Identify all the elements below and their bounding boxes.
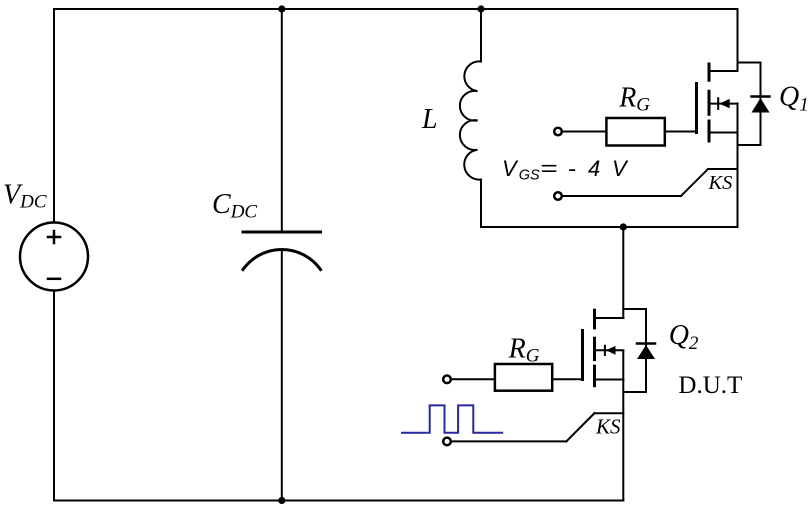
svg-text:=: = <box>540 156 558 181</box>
wire Q1 diode branch <box>760 63 762 146</box>
wire Q1 kelvin source diagonal <box>681 169 708 196</box>
wire Q2 kelvin source to rail <box>594 412 623 414</box>
wire Q1 gate input lead <box>562 131 606 133</box>
label VGS = -4V <box>502 156 629 184</box>
wire Q2 gate lead <box>552 378 582 380</box>
transistor Q1 channel bottom segment <box>708 121 711 141</box>
wire Q1 body-source tie <box>737 104 739 133</box>
inductor L coil <box>460 61 481 179</box>
wire Q1 gate lead <box>665 131 697 133</box>
wire Q2 kelvin source horizontal <box>451 440 567 442</box>
resistor RG2 body <box>495 364 552 391</box>
transistor Q1 channel middle segment <box>708 91 711 114</box>
svg-text:L: L <box>421 104 438 135</box>
wire Q2 diode top tap <box>623 308 646 310</box>
svg-text:CDC: CDC <box>212 189 257 222</box>
svg-text:4: 4 <box>588 156 600 181</box>
VDC minus sign <box>48 278 60 281</box>
svg-text:RG: RG <box>508 334 540 367</box>
wire bottom rail <box>54 500 623 502</box>
transistor Q2 channel middle segment <box>593 338 596 359</box>
transistor Q2 body diode arrow <box>595 346 624 355</box>
diode D1 cathode bar <box>752 95 770 98</box>
wire upper loop bottom <box>481 226 738 228</box>
wire Q2 kelvin source diagonal <box>566 413 594 441</box>
svg-text:KS: KS <box>708 172 733 194</box>
transistor Q1 gate bar <box>695 84 698 133</box>
transistor Q2 channel top segment <box>593 310 596 328</box>
node junction mid bottom (to Q2 drain) <box>620 223 627 230</box>
terminal Q2 gate input <box>443 376 451 384</box>
transistor Q2 channel bottom segment <box>593 366 596 386</box>
transistor Q2 source lead <box>595 379 623 381</box>
wire inductor top lead <box>480 9 482 62</box>
diode D1 triangle <box>752 98 770 113</box>
svg-text:GS: GS <box>519 168 540 184</box>
svg-text:V: V <box>612 156 629 181</box>
voltage source VDC circle <box>20 223 88 291</box>
diode D2 triangle <box>637 345 655 359</box>
wire Q1 source rail down <box>737 133 739 228</box>
svg-text:-: - <box>568 156 576 181</box>
terminal Q1 kelvin source <box>554 192 562 200</box>
wire Q2 source rail down <box>622 380 624 501</box>
transistor Q2 drain lead <box>595 317 623 319</box>
node junction top of capacitor <box>278 5 285 12</box>
node junction bottom of capacitor <box>278 497 285 504</box>
svg-text:D.U.T: D.U.T <box>678 372 742 399</box>
svg-text:Q1: Q1 <box>779 82 809 116</box>
wire capacitor top lead <box>281 9 283 232</box>
capacitor CDC curved bottom plate <box>243 250 321 270</box>
wire capacitor bottom lead <box>281 249 283 500</box>
transistor Q1 source lead <box>709 132 738 134</box>
svg-text:VDC: VDC <box>3 180 47 213</box>
resistor RG1 body <box>606 118 664 146</box>
terminal Q1 gate input <box>554 128 562 136</box>
diode D2 cathode bar <box>637 342 655 345</box>
VDC plus sign <box>48 231 60 243</box>
wire Q2 diode bottom tap <box>623 391 646 393</box>
svg-text:RG: RG <box>618 83 650 116</box>
wire Q2 gate input lead <box>451 378 495 380</box>
wire Q2 diode branch <box>645 309 647 392</box>
svg-text:Q2: Q2 <box>669 320 699 354</box>
wire Q1 diode bottom tap <box>738 144 761 146</box>
capacitor CDC top plate <box>243 231 321 234</box>
wire inductor bottom lead <box>480 180 482 228</box>
wire left rail lower <box>53 291 55 501</box>
wire top rail <box>54 8 738 10</box>
transistor Q2 gate bar <box>581 331 584 380</box>
wire Q1 kelvin source horizontal <box>562 195 681 197</box>
svg-text:V: V <box>502 156 519 181</box>
transistor Q1 body diode arrow <box>709 98 738 109</box>
transistor Q1 drain lead <box>709 70 738 72</box>
node junction top of inductor <box>477 5 484 12</box>
wire Q1 diode top tap <box>738 62 761 64</box>
transistor Q1 drain rail <box>737 9 739 71</box>
wire left rail upper <box>53 9 55 223</box>
wire Q1 kelvin source to rail <box>708 168 738 170</box>
wire Q2 body-source tie <box>622 351 624 380</box>
double pulse waveform <box>402 405 502 432</box>
terminal Q2 kelvin source <box>443 438 451 446</box>
wire Q2 drain rail from junction <box>622 227 624 318</box>
svg-text:KS: KS <box>595 415 621 439</box>
transistor Q1 channel top segment <box>708 64 711 80</box>
